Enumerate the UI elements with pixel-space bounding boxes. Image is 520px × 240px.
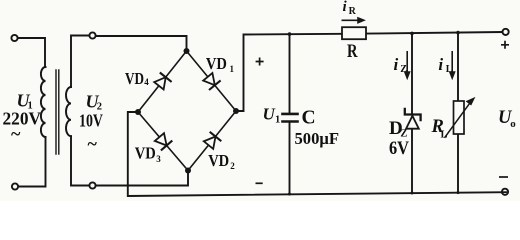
svg-text:6V: 6V — [389, 138, 409, 159]
svg-text:~: ~ — [88, 134, 98, 154]
svg-text:3: 3 — [156, 154, 161, 164]
svg-text:220V: 220V — [3, 109, 42, 129]
svg-text:~: ~ — [11, 124, 21, 144]
svg-text:i: i — [438, 55, 443, 74]
svg-text:Z: Z — [400, 64, 407, 75]
svg-text:L: L — [441, 130, 448, 141]
svg-text:o: o — [510, 118, 516, 130]
svg-text:L: L — [446, 64, 453, 75]
svg-text:C: C — [302, 108, 316, 129]
svg-text:R: R — [349, 6, 357, 17]
svg-text:1: 1 — [275, 115, 280, 126]
svg-text:2: 2 — [230, 161, 235, 171]
svg-text:VD: VD — [206, 54, 227, 73]
svg-text:1: 1 — [230, 64, 235, 74]
svg-text:4: 4 — [144, 77, 149, 87]
svg-text:R: R — [347, 41, 358, 62]
svg-text:500μF: 500μF — [295, 129, 340, 148]
svg-text:VD: VD — [125, 69, 144, 88]
svg-text:VD: VD — [208, 151, 229, 170]
svg-text:VD: VD — [135, 144, 156, 163]
svg-text:i: i — [394, 55, 399, 74]
svg-text:10V: 10V — [79, 111, 103, 131]
svg-text:U: U — [263, 105, 276, 124]
